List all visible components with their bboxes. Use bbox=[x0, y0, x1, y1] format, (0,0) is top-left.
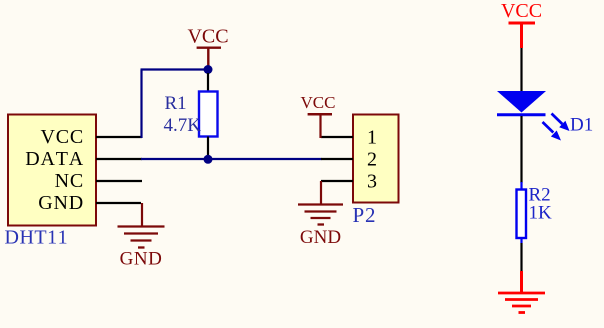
wire VCC net vertical bbox=[140, 70, 142, 139]
wire VCC net horizontal to junction bbox=[141, 68, 209, 70]
resistor R2 body bbox=[517, 190, 527, 239]
svg-text:R1: R1 bbox=[165, 93, 187, 114]
power port VCC (LED branch) stem bbox=[520, 23, 523, 48]
junction dot at DATA/R1 node bbox=[204, 155, 213, 164]
power port VCC (above R1) stem bbox=[207, 48, 209, 70]
power port VCC (LED branch) bar bbox=[509, 22, 536, 25]
wire VCC to LED anode bbox=[520, 48, 522, 92]
resistor R2 pin 2 (bottom, blue) bbox=[520, 238, 522, 243]
svg-text:NC: NC bbox=[55, 170, 84, 192]
component DHT11 body bbox=[8, 115, 96, 226]
pin 2 stub of P2 bbox=[321, 158, 353, 160]
ground symbol GND (DHT11) stem bbox=[141, 203, 143, 226]
ground symbol GND (P2) bars bbox=[298, 205, 343, 225]
power port VCC (P2) bar bbox=[308, 113, 332, 116]
wire R2 to ground bbox=[520, 243, 522, 272]
svg-text:P2: P2 bbox=[353, 203, 377, 227]
power port VCC (above R1) bar bbox=[197, 47, 221, 49]
svg-text:VCC: VCC bbox=[187, 26, 228, 48]
resistor R1 body bbox=[199, 92, 218, 137]
pin NC stub of DHT11 bbox=[96, 180, 142, 182]
pin DATA stub of DHT11 bbox=[96, 158, 142, 160]
pin VCC stub of DHT11 bbox=[96, 136, 142, 138]
LED D1 emission arrow 2 bbox=[543, 122, 562, 141]
power port VCC (P2) stem bbox=[319, 114, 321, 138]
svg-text:3: 3 bbox=[367, 171, 377, 193]
svg-text:VCC: VCC bbox=[501, 0, 542, 22]
pin 1 stub of P2 bbox=[321, 136, 353, 138]
svg-text:DATA: DATA bbox=[25, 148, 84, 170]
svg-text:GND: GND bbox=[38, 192, 84, 214]
LED D1 cathode bar bbox=[497, 113, 546, 116]
svg-text:D1: D1 bbox=[570, 115, 593, 136]
svg-text:1K: 1K bbox=[529, 203, 553, 224]
wire DATA net bbox=[141, 158, 322, 160]
svg-text:1: 1 bbox=[367, 127, 377, 149]
svg-text:GND: GND bbox=[300, 227, 341, 248]
svg-text:2: 2 bbox=[367, 149, 377, 171]
svg-text:VCC: VCC bbox=[301, 93, 336, 112]
svg-text:DHT11: DHT11 bbox=[5, 227, 69, 249]
ground symbol GND (P2) stem bbox=[320, 181, 322, 205]
ground symbol (LED branch) stem bbox=[520, 271, 523, 293]
ground symbol (LED branch) bars bbox=[498, 293, 545, 313]
resistor R1 pin 1 (top) bbox=[207, 73, 209, 92]
LED D1 emission arrow 1 bbox=[552, 114, 570, 132]
svg-text:4.7K: 4.7K bbox=[164, 115, 202, 136]
LED D1 triangle (anode) bbox=[497, 91, 546, 113]
svg-text:VCC: VCC bbox=[40, 126, 84, 148]
pin GND stub of DHT11 bbox=[96, 202, 141, 204]
pin 3 stub of P2 bbox=[321, 180, 353, 182]
resistor R1 pin 2 (bottom) bbox=[207, 137, 209, 160]
svg-text:GND: GND bbox=[120, 249, 163, 270]
ground symbol GND (DHT11) bars bbox=[118, 227, 165, 248]
connector P2 body bbox=[353, 115, 399, 203]
wire LED cathode to R2 bbox=[520, 116, 522, 183]
junction dot at VCC/R1 node bbox=[204, 65, 213, 74]
resistor R2 pin 1 (top, blue) bbox=[520, 182, 522, 190]
